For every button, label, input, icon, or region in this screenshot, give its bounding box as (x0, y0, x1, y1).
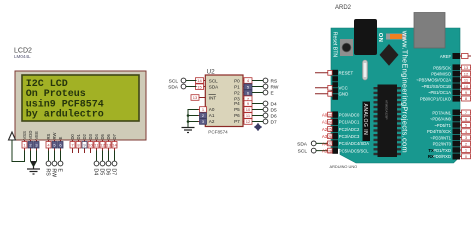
wire VEE to ground (34, 151, 37, 167)
svg-text:SCL: SCL (209, 78, 218, 83)
svg-text:GND: GND (339, 92, 349, 97)
terminal D5 (U2 side) (263, 107, 268, 112)
terminal RW (52, 161, 57, 166)
LCD pin names (vertical) (22, 131, 117, 140)
svg-text:A5: A5 (322, 149, 328, 154)
svg-text:25: 25 (328, 128, 332, 132)
svg-text:A0: A0 (322, 113, 328, 118)
left stubs and number boxes (315, 73, 332, 94)
right pin labels (416, 54, 452, 159)
svg-text:D6: D6 (105, 169, 111, 176)
LCD LCD2 body (15, 71, 146, 140)
svg-text:D6: D6 (271, 114, 277, 120)
junction blob (31, 161, 37, 167)
svg-text:A0: A0 (209, 107, 215, 112)
svg-text:PB5/SCK: PB5/SCK (433, 65, 451, 70)
svg-text:VSS: VSS (22, 131, 27, 140)
svg-text:12: 12 (246, 119, 251, 124)
svg-text:P5: P5 (234, 107, 240, 112)
svg-text:P0: P0 (234, 78, 240, 83)
svg-text:D3: D3 (88, 133, 93, 139)
svg-text:SDA: SDA (168, 84, 179, 90)
AREF stub (460, 55, 471, 57)
terminal D6 (106, 161, 111, 166)
svg-text:D4: D4 (94, 133, 99, 139)
svg-text:PC3/ADC3: PC3/ADC3 (339, 134, 360, 139)
svg-text:D5: D5 (99, 169, 105, 176)
U2 pin stubs (192, 81, 252, 122)
svg-text:24: 24 (328, 121, 332, 125)
LCD pin stubs (25, 140, 115, 153)
svg-text:LM044L: LM044L (14, 54, 31, 59)
wires U2 P0-P2 to RS/RW/E terminals (252, 81, 263, 122)
TX RX labels (428, 148, 434, 159)
wire RW (54, 151, 56, 161)
wire E (60, 151, 62, 161)
svg-text:~PB2/SS/OC1B: ~PB2/SS/OC1B (421, 84, 451, 89)
svg-text:10: 10 (246, 107, 251, 112)
svg-text:10: 10 (88, 143, 93, 148)
svg-text:D7: D7 (112, 133, 117, 139)
svg-text:D7: D7 (111, 169, 117, 176)
terminal RW (U2 side) (263, 84, 268, 89)
wires A0 A1 A2 tied to ground (188, 110, 198, 128)
svg-text:A4: A4 (322, 141, 328, 146)
wire VDD to ground (31, 151, 34, 167)
svg-text:D4: D4 (271, 102, 277, 108)
svg-text:SDA: SDA (209, 84, 219, 89)
wire SCL to U2 (186, 80, 197, 82)
ATmega328 chip (374, 85, 402, 158)
right stubs (460, 68, 471, 157)
svg-text:~PB1/OC1A: ~PB1/OC1A (428, 90, 451, 95)
svg-text:SCL: SCL (298, 149, 308, 155)
wire SDA to A4 (316, 142, 332, 144)
svg-text:PC0/ADC0: PC0/ADC0 (339, 112, 360, 117)
left pin header (RESET/VCC/GND) (332, 70, 338, 100)
svg-text:PB0/ICP1/CLKO: PB0/ICP1/CLKO (420, 96, 452, 101)
terminal D6 (U2 side) (263, 113, 268, 118)
terminal D5 (100, 161, 105, 166)
right red number boxes (462, 65, 471, 159)
Arduino board (331, 28, 460, 163)
svg-text:PC2/ADC2: PC2/ADC2 (339, 127, 360, 132)
svg-text:D2: D2 (82, 133, 87, 139)
black diamond (380, 44, 399, 66)
svg-text:RS: RS (46, 133, 51, 139)
svg-text:VCC: VCC (339, 86, 348, 91)
svg-text:28: 28 (328, 149, 332, 153)
svg-text:D5: D5 (271, 108, 277, 114)
svg-text:A3: A3 (322, 134, 328, 139)
USB connector (414, 13, 445, 49)
svg-text:D5: D5 (100, 133, 105, 139)
svg-text:~PD6/AIN0: ~PD6/AIN0 (430, 117, 452, 122)
analog red boxes (328, 112, 333, 153)
svg-text:PC5/ADC5/SCL: PC5/ADC5/SCL (339, 148, 369, 153)
svg-text:A1: A1 (322, 120, 328, 125)
svg-text:27: 27 (328, 142, 332, 146)
svg-text:PD0/RXD: PD0/RXD (433, 154, 451, 159)
terminal D4 (U2 side) (263, 101, 268, 106)
svg-text:PB4/MISO: PB4/MISO (431, 72, 452, 77)
svg-text:~PD3/INT1: ~PD3/INT1 (430, 135, 452, 140)
svg-text:12: 12 (464, 71, 469, 76)
U2 internal pin names (209, 78, 241, 124)
svg-text:D1: D1 (76, 133, 81, 139)
wire D4 (96, 151, 98, 161)
wire D5 (102, 151, 104, 161)
svg-text:AREF: AREF (440, 54, 452, 59)
svg-text:P2: P2 (234, 90, 240, 95)
svg-text:A1: A1 (209, 113, 215, 118)
svg-text:ANALOG IN: ANALOG IN (362, 104, 368, 136)
svg-text:10: 10 (464, 84, 469, 89)
U2 pin number boxes left: 14,15,13,1,2,3 (191, 78, 207, 125)
svg-text:23: 23 (328, 113, 332, 117)
svg-text:INT: INT (209, 95, 217, 100)
svg-text:P6: P6 (234, 113, 240, 118)
junction dots (187, 114, 190, 117)
U2 pin number boxes right: 4,5,6,7,9,10,11,12 (244, 78, 252, 125)
svg-text:PD2/INT0: PD2/INT0 (433, 142, 452, 147)
svg-text:26: 26 (328, 135, 332, 139)
pin header cell separators (332, 71, 460, 154)
svg-text:PD7/AIN1: PD7/AIN1 (432, 110, 451, 115)
ANALOG IN bar (363, 102, 371, 142)
svg-text:Reset BTN: Reset BTN (332, 32, 338, 58)
wire D6 (108, 151, 110, 161)
svg-text:VEE: VEE (34, 131, 39, 140)
terminal E (U2 side) (263, 90, 268, 95)
left pin labels (339, 71, 354, 97)
svg-text:14: 14 (197, 78, 202, 83)
svg-text:ARDUINO UNO: ARDUINO UNO (330, 164, 358, 169)
terminal D4 (94, 161, 99, 166)
svg-text:~PB3/MOSI/OC2A: ~PB3/MOSI/OC2A (416, 78, 451, 83)
svg-text:RX: RX (428, 154, 434, 159)
wire D7 (114, 151, 116, 161)
ground (LCD) (27, 167, 40, 175)
svg-text:RW: RW (271, 85, 279, 91)
power LED (386, 34, 406, 40)
terminal E (58, 161, 63, 166)
svg-text:13: 13 (193, 95, 198, 100)
right pin header 13-8 (453, 64, 461, 101)
svg-text:A2: A2 (322, 127, 328, 132)
svg-text:www.TheEngineeringProjects.com: www.TheEngineeringProjects.com (401, 30, 410, 153)
svg-text:12: 12 (100, 143, 105, 148)
svg-text:15: 15 (197, 84, 202, 89)
svg-text:PC1/ADC1: PC1/ADC1 (339, 120, 360, 125)
LCD display text (26, 79, 104, 121)
svg-text:RS: RS (271, 79, 278, 85)
right pin header 7-0 (453, 110, 461, 160)
svg-text:PCF8574: PCF8574 (208, 129, 228, 134)
svg-text:A2: A2 (209, 119, 215, 124)
svg-text:P7: P7 (234, 119, 240, 124)
svg-text:by ardulectro: by ardulectro (26, 109, 104, 121)
svg-text:RS: RS (45, 169, 51, 177)
LCD LCD2 reference label (14, 48, 32, 60)
right pin header AREF (453, 53, 461, 59)
svg-text:ARD2: ARD2 (335, 5, 352, 11)
origin marker (blue cross) (254, 123, 262, 131)
svg-text:PD1/TXD: PD1/TXD (433, 148, 451, 153)
svg-text:SCL: SCL (169, 78, 179, 84)
wire VSS to power (12, 140, 25, 162)
svg-text:D0: D0 (70, 133, 75, 139)
svg-text:P1: P1 (234, 84, 240, 89)
analog internal labels (339, 112, 369, 153)
wire SCL to A5 (316, 150, 332, 152)
svg-text:TX: TX (428, 148, 434, 153)
svg-text:~PD5/T1: ~PD5/T1 (434, 123, 451, 128)
terminal RS (46, 161, 51, 166)
reset button (340, 39, 353, 56)
svg-text:E: E (57, 169, 63, 173)
svg-text:SDA: SDA (297, 141, 308, 147)
wire SDA to U2 (186, 86, 197, 88)
svg-text:E: E (58, 137, 63, 140)
svg-text:ATMEGA328P: ATMEGA328P (385, 100, 389, 119)
svg-text:ON: ON (377, 33, 383, 43)
terminal D7 (U2 side) (263, 119, 268, 124)
svg-text:D7: D7 (271, 120, 277, 126)
power symbol (VSS net) (9, 132, 16, 140)
svg-text:E: E (271, 91, 274, 97)
svg-text:D4: D4 (93, 169, 99, 176)
LCD pin number boxes 1-14 (22, 142, 117, 149)
ground (U2) (182, 128, 195, 133)
svg-text:usin9 PCF8574: usin9 PCF8574 (26, 98, 104, 110)
left analog pin header A0-A5 (332, 111, 338, 153)
svg-text:PC4/ADC4/SDA: PC4/ADC4/SDA (339, 141, 369, 146)
svg-text:VDD: VDD (28, 131, 33, 140)
svg-text:13: 13 (106, 143, 111, 148)
analog A labels (322, 113, 328, 154)
terminal D7 (112, 161, 117, 166)
svg-text:RW: RW (51, 169, 57, 178)
svg-text:14: 14 (112, 143, 117, 148)
wire RS (48, 151, 50, 161)
IC U2 PCF8574 body (205, 75, 243, 127)
power jack (354, 19, 377, 55)
crystal (363, 60, 368, 80)
terminal RS (U2 side) (263, 78, 268, 83)
svg-text:13: 13 (464, 65, 469, 70)
svg-text:P4: P4 (234, 101, 240, 106)
svg-text:PD4/T0/XCK: PD4/T0/XCK (427, 129, 451, 134)
svg-text:D6: D6 (106, 133, 111, 139)
svg-text:RW: RW (52, 133, 57, 140)
svg-text:RESET: RESET (339, 71, 354, 76)
